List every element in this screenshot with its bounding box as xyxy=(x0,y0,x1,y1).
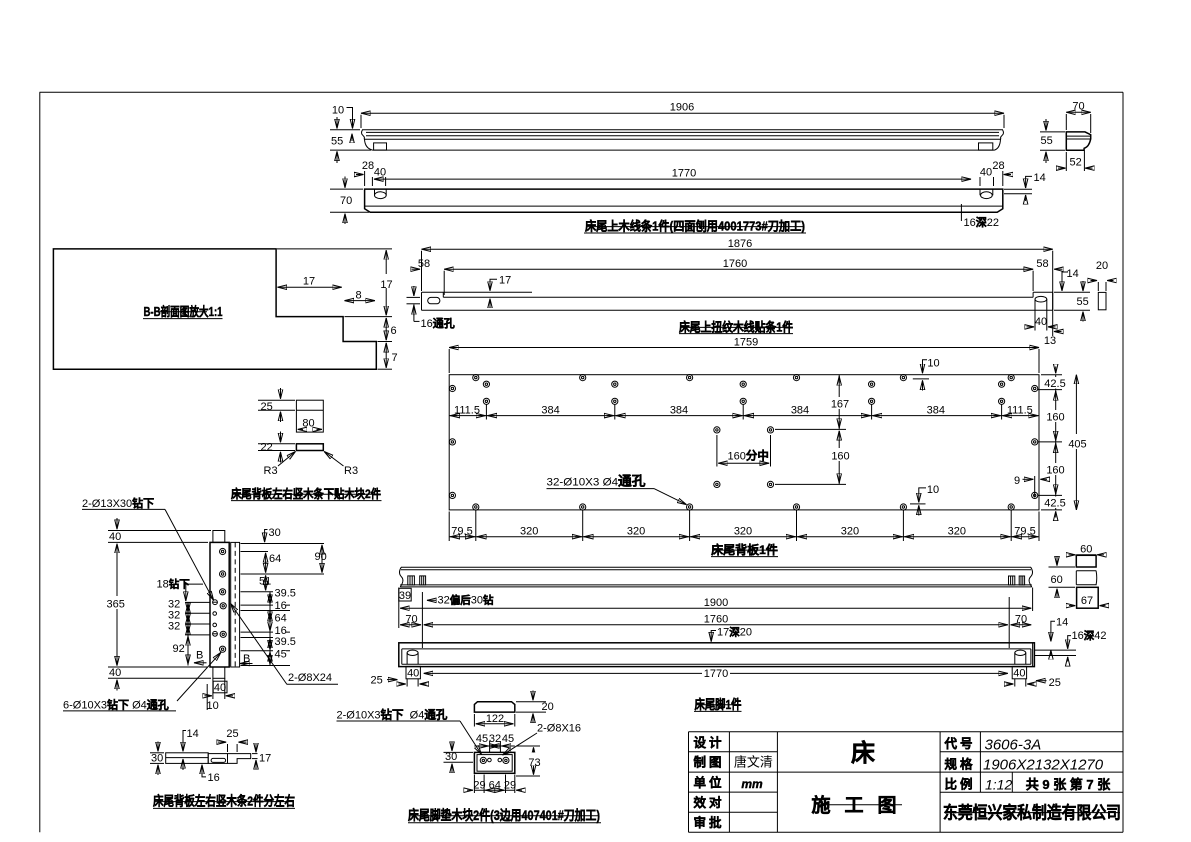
dowel pins right end xyxy=(1009,576,1025,585)
label 6-Ø10X3钻下 Ø4通孔 with leader xyxy=(63,652,221,711)
label 2-Ø10X3钻下 Ø4通孔 pad with leader xyxy=(337,707,482,754)
step reference line 17 xyxy=(443,291,532,293)
label 床尾上木线条1件(四面刨用4001773#刀加工) xyxy=(584,219,806,234)
dowel pins left end xyxy=(408,576,426,585)
svg-text:14: 14 xyxy=(1056,617,1068,629)
svg-text:32偏后30钻: 32偏后30钻 xyxy=(438,593,495,606)
svg-text:3606-3A: 3606-3A xyxy=(985,737,1042,754)
svg-text:R3: R3 xyxy=(264,465,278,477)
label stroke fill simulation xyxy=(155,227,1120,816)
svg-text:160: 160 xyxy=(831,450,849,462)
dim 30 pad xyxy=(444,742,474,774)
dim 60 top profile xyxy=(1069,544,1105,556)
svg-text:67: 67 xyxy=(1081,595,1093,607)
dim 9 right xyxy=(1014,475,1047,498)
notch left on molding xyxy=(374,143,387,150)
dim 405 xyxy=(1066,375,1088,510)
svg-text:17: 17 xyxy=(259,753,271,765)
svg-text:30: 30 xyxy=(445,751,457,763)
svg-text:70: 70 xyxy=(405,614,417,626)
svg-text:B: B xyxy=(196,650,203,662)
dim 40 boxed right leg xyxy=(1006,666,1034,686)
svg-text:25: 25 xyxy=(261,401,273,413)
svg-text:32-Ø10X3 Ø4通孔: 32-Ø10X3 Ø4通孔 xyxy=(547,474,646,489)
svg-text:2-Ø10X3钻下 Ø4通孔: 2-Ø10X3钻下 Ø4通孔 xyxy=(337,707,448,721)
svg-text:40: 40 xyxy=(374,167,386,179)
slot in cross section xyxy=(211,758,226,762)
svg-text:80: 80 xyxy=(302,418,314,430)
label R3 left with leader xyxy=(264,452,296,477)
oval hole left end 16通孔 xyxy=(428,297,440,303)
part 贴木块 lower view outline xyxy=(296,444,323,451)
svg-text:16: 16 xyxy=(275,625,287,637)
svg-text:160: 160 xyxy=(1046,411,1064,423)
part 贴木块 upper view outline xyxy=(296,400,323,432)
svg-text:比例: 比例 xyxy=(944,777,975,792)
slot right leg xyxy=(1015,650,1026,664)
dim 25 right leg xyxy=(1036,677,1061,689)
svg-text:79.5: 79.5 xyxy=(451,526,472,538)
svg-text:384: 384 xyxy=(541,404,559,416)
holes pad block xyxy=(480,757,509,763)
svg-text:8: 8 xyxy=(355,289,361,301)
svg-text:58: 58 xyxy=(418,258,430,270)
dim 40 right slot xyxy=(1027,310,1056,330)
dim 55 right xyxy=(1054,281,1090,322)
svg-text:111.5: 111.5 xyxy=(454,404,480,416)
dim chain right 42.5/160/160/42.5 xyxy=(1038,367,1066,518)
svg-text:92: 92 xyxy=(173,643,185,655)
dim 14 bracket cross section xyxy=(183,728,199,770)
slot left bottom view xyxy=(375,189,387,199)
svg-text:1760: 1760 xyxy=(704,614,728,626)
svg-text:床尾背板1件: 床尾背板1件 xyxy=(711,542,778,557)
dim row 79.5/320 below backboard xyxy=(449,511,1039,542)
svg-text:共 9 张 第 7 张: 共 9 张 第 7 张 xyxy=(1026,777,1112,792)
dim 167 vertical xyxy=(830,375,849,430)
label B-B剖面图放大1:1 xyxy=(143,304,223,319)
holes top row xyxy=(473,375,1015,381)
svg-text:45: 45 xyxy=(275,649,287,661)
holes bottom row xyxy=(473,504,1015,510)
svg-text:28: 28 xyxy=(992,160,1004,172)
svg-text:55: 55 xyxy=(1041,135,1053,147)
svg-text:1759: 1759 xyxy=(734,336,758,348)
svg-text:R3: R3 xyxy=(344,465,358,477)
label 16通孔 leader xyxy=(407,286,455,330)
label 32偏后30钻 with leader xyxy=(427,593,494,606)
svg-text:13: 13 xyxy=(1044,335,1056,347)
svg-text:40: 40 xyxy=(109,667,121,679)
label 床尾背板左右竖木条2件分左右 xyxy=(153,794,295,809)
svg-text:320: 320 xyxy=(948,526,966,538)
label 2-Ø8X16 with leader xyxy=(503,723,582,756)
svg-text:mm: mm xyxy=(741,777,763,791)
svg-text:1760: 1760 xyxy=(723,258,747,270)
svg-text:设计: 设计 xyxy=(693,735,724,750)
svg-text:22: 22 xyxy=(261,441,273,453)
svg-text:30: 30 xyxy=(151,753,163,765)
label 18钻下 with leader xyxy=(157,577,204,601)
dims 32/32/32/92 left of strip xyxy=(168,599,210,666)
label 17深20 bracket xyxy=(711,625,752,641)
dim 1760 leg xyxy=(424,614,1008,626)
part 床尾上木线条 bottom view outline xyxy=(365,189,1003,212)
tenon tab bottom xyxy=(213,667,225,678)
svg-text:6: 6 xyxy=(391,325,397,337)
svg-text:16深42: 16深42 xyxy=(1072,629,1107,642)
svg-text:40: 40 xyxy=(1013,668,1025,680)
svg-text:29: 29 xyxy=(473,780,485,792)
svg-text:1:12: 1:12 xyxy=(985,777,1012,793)
end block section 20x55 xyxy=(1098,292,1106,309)
dim 73 pad xyxy=(516,746,542,776)
svg-text:384: 384 xyxy=(791,404,809,416)
notch right on molding xyxy=(979,143,993,150)
dim 10 bracket bottom xyxy=(910,484,939,516)
dim 6 BB xyxy=(378,318,397,342)
dim 20 end block xyxy=(1091,260,1114,291)
holes in strip xyxy=(213,548,227,652)
svg-text:代号: 代号 xyxy=(943,736,975,751)
svg-text:16: 16 xyxy=(208,772,220,784)
svg-text:64: 64 xyxy=(489,780,501,792)
svg-text:14: 14 xyxy=(1034,172,1046,184)
title block grid xyxy=(689,732,1124,833)
dim 10 bracket xyxy=(332,105,353,142)
slot right bottom view xyxy=(980,189,993,199)
svg-text:40: 40 xyxy=(407,668,419,680)
part B-B section outline xyxy=(53,249,376,369)
svg-text:64: 64 xyxy=(269,553,281,565)
dim 70 left leg xyxy=(400,592,422,648)
svg-text:床尾背板左右竖木条下贴木块2件: 床尾背板左右竖木条下贴木块2件 xyxy=(231,486,381,501)
svg-text:90: 90 xyxy=(315,551,327,563)
dim 1759 xyxy=(449,336,1039,373)
dim 160分中 xyxy=(717,435,771,467)
dim 28 right xyxy=(992,160,1011,186)
svg-text:2-Ø8X24: 2-Ø8X24 xyxy=(288,672,332,684)
svg-text:7: 7 xyxy=(392,352,398,364)
svg-text:9: 9 xyxy=(1014,475,1020,487)
svg-text:10: 10 xyxy=(207,700,219,712)
svg-text:70: 70 xyxy=(1072,101,1084,113)
svg-text:10: 10 xyxy=(332,105,344,117)
svg-text:16深22: 16深22 xyxy=(964,215,1000,229)
holes row 2 xyxy=(483,381,1004,387)
label 床尾上扭纹木线贴条1件 xyxy=(679,319,793,334)
svg-text:70: 70 xyxy=(1015,614,1027,626)
svg-text:17: 17 xyxy=(499,275,511,287)
dim 70 right leg xyxy=(1009,597,1031,648)
svg-text:制图: 制图 xyxy=(693,755,724,770)
dim 60 left profile xyxy=(1049,557,1076,599)
svg-text:39: 39 xyxy=(399,590,411,602)
svg-text:1906X2132X1270: 1906X2132X1270 xyxy=(983,757,1104,774)
svg-text:365: 365 xyxy=(107,599,125,611)
dim 1876 xyxy=(422,238,1053,336)
svg-text:52: 52 xyxy=(1070,157,1082,169)
label 床尾脚垫木块2件(3边用407401#刀加工) xyxy=(408,807,601,823)
dim 25 cross section xyxy=(218,728,247,752)
svg-text:122: 122 xyxy=(486,713,504,725)
dim 67 profile xyxy=(1069,594,1106,608)
label 32-Ø10X3 Ø4通孔 with leader xyxy=(547,474,687,505)
dim row 111.5/384 inside backboard xyxy=(449,404,1039,420)
dim 14 bracket right xyxy=(1062,268,1079,291)
dim 14 right bracket xyxy=(1004,172,1046,201)
svg-text:14: 14 xyxy=(187,728,199,740)
dim 25 left leg xyxy=(371,675,398,687)
svg-text:床尾上木线条1件(四面刨用4001773#刀加工): 床尾上木线条1件(四面刨用4001773#刀加工) xyxy=(585,219,805,234)
svg-text:70: 70 xyxy=(340,195,352,207)
dim 39 boxed xyxy=(399,588,411,602)
dim 20 pad xyxy=(516,691,554,723)
dim 55 profile xyxy=(1040,119,1065,163)
label 床尾背板左右竖木条下贴木块2件 xyxy=(231,486,382,501)
slot right end trim strip xyxy=(1035,296,1047,310)
svg-text:28: 28 xyxy=(362,160,374,172)
dim 7 BB xyxy=(378,343,398,369)
dim 70 profile xyxy=(1066,101,1090,133)
svg-text:40: 40 xyxy=(1035,316,1047,328)
dim 16 bracket cross section xyxy=(202,765,220,784)
svg-text:40: 40 xyxy=(109,531,121,543)
svg-text:20: 20 xyxy=(1096,260,1108,272)
tenon tab top xyxy=(213,531,225,543)
dim 1770 leg xyxy=(424,668,1008,681)
dim 17 vertical BB xyxy=(277,249,394,317)
svg-text:60: 60 xyxy=(1080,544,1092,556)
svg-text:25: 25 xyxy=(1049,677,1061,689)
tongue line bottom view xyxy=(365,205,1003,207)
svg-text:1770: 1770 xyxy=(672,167,696,179)
holes right edge column xyxy=(1032,385,1038,498)
svg-text:320: 320 xyxy=(520,526,538,538)
dim 1760 trim strip xyxy=(444,258,1033,295)
svg-text:55: 55 xyxy=(331,136,343,148)
svg-text:14: 14 xyxy=(1067,268,1079,280)
svg-text:16通孔: 16通孔 xyxy=(421,317,455,330)
svg-text:唐文清: 唐文清 xyxy=(734,755,773,770)
svg-text:160: 160 xyxy=(1046,464,1064,476)
dim 40 boxed left leg xyxy=(399,666,427,686)
svg-text:17: 17 xyxy=(303,276,315,288)
dim chain right of strip 30/64/90/51/39.5/16/64/16/39.5/45 xyxy=(241,527,327,666)
svg-text:25: 25 xyxy=(371,675,383,687)
dim 80 xyxy=(298,418,322,430)
dim 25 xyxy=(258,388,295,422)
end profile section of molding xyxy=(1066,132,1090,150)
svg-text:20: 20 xyxy=(542,701,554,713)
part 竖木条 cross section outline xyxy=(166,753,251,764)
svg-text:405: 405 xyxy=(1068,438,1086,450)
label 2-Ø8X24 with leader xyxy=(231,604,339,685)
dim 1900 xyxy=(399,588,1033,629)
svg-text:111.5: 111.5 xyxy=(1007,404,1033,416)
svg-text:17深20: 17深20 xyxy=(717,625,752,638)
svg-text:320: 320 xyxy=(841,526,859,538)
svg-text:床尾脚垫木块2件(3边用407401#刀加工): 床尾脚垫木块2件(3边用407401#刀加工) xyxy=(408,807,600,823)
section marker B left xyxy=(194,650,207,663)
dim 28 left xyxy=(356,160,374,186)
svg-text:160分中: 160分中 xyxy=(728,448,769,462)
svg-text:1770: 1770 xyxy=(704,668,728,680)
dim 55 molding height xyxy=(330,117,371,163)
svg-text:效对: 效对 xyxy=(693,795,724,810)
svg-text:10: 10 xyxy=(927,357,939,369)
svg-text:2-Ø8X16: 2-Ø8X16 xyxy=(537,723,581,735)
part 脚垫木块 front view outline xyxy=(474,752,514,773)
svg-text:1900: 1900 xyxy=(704,597,728,609)
dim 160 vertical xyxy=(775,429,850,484)
label 16深42 bracket xyxy=(1034,629,1106,662)
svg-text:床尾上扭纹木线贴条1件: 床尾上扭纹木线贴条1件 xyxy=(679,319,793,334)
holes row 3 xyxy=(483,398,1004,404)
dim 17 bracket tongue xyxy=(490,275,511,308)
leg end profile section xyxy=(1076,555,1098,608)
dim 70 left xyxy=(330,177,369,225)
svg-text:45: 45 xyxy=(476,733,488,745)
svg-text:39.5: 39.5 xyxy=(275,636,296,648)
dim 10 bottom xyxy=(207,684,219,712)
slot left leg xyxy=(407,650,418,664)
svg-text:64: 64 xyxy=(275,613,287,625)
svg-text:40: 40 xyxy=(214,682,226,694)
dim 40 left xyxy=(374,167,386,187)
svg-text:1876: 1876 xyxy=(728,238,752,250)
svg-text:42.5: 42.5 xyxy=(1044,498,1065,510)
dim 45/32/45 pad xyxy=(474,733,514,752)
part 脚垫木块 side view outline xyxy=(474,702,514,712)
drawing frame border top xyxy=(40,91,1124,93)
part 床尾脚 bottom view outline xyxy=(399,643,1035,667)
dim chain left 40/365/40 xyxy=(105,518,211,691)
svg-text:58: 58 xyxy=(1036,258,1048,270)
svg-text:25: 25 xyxy=(226,728,238,740)
holes left edge column xyxy=(449,385,455,498)
dim 1770 xyxy=(374,167,971,179)
svg-text:320: 320 xyxy=(734,526,752,538)
section marker B right xyxy=(240,653,253,665)
svg-text:17: 17 xyxy=(380,279,392,291)
svg-text:30: 30 xyxy=(269,527,281,539)
svg-text:29: 29 xyxy=(504,780,516,792)
part 竖木条 front view outline xyxy=(210,542,229,667)
holes center group xyxy=(714,427,774,488)
svg-text:16: 16 xyxy=(275,600,287,612)
dim 1906 xyxy=(361,102,1004,128)
svg-text:1906: 1906 xyxy=(670,102,694,114)
drawing frame border left xyxy=(39,92,41,832)
dim 52 profile xyxy=(1058,151,1093,172)
dim 29/64/29 pad xyxy=(467,775,522,794)
svg-text:2-Ø13X30钻下: 2-Ø13X30钻下 xyxy=(82,496,154,510)
part 床尾上扭纹木线贴条 outline xyxy=(422,292,1053,310)
svg-text:79.5: 79.5 xyxy=(1014,526,1035,538)
svg-text:55: 55 xyxy=(1077,296,1089,308)
svg-text:60: 60 xyxy=(1051,574,1063,586)
label 16深22 xyxy=(961,204,999,229)
svg-text:32: 32 xyxy=(168,621,180,633)
label 床尾脚1件 xyxy=(694,697,742,712)
label 2-Ø13X30钻下 with leader xyxy=(82,496,214,601)
svg-text:73: 73 xyxy=(528,757,540,769)
svg-text:51: 51 xyxy=(259,575,271,587)
svg-text:32: 32 xyxy=(489,733,501,745)
svg-text:10: 10 xyxy=(927,484,939,496)
dim 40 bottom tab xyxy=(205,678,234,699)
svg-text:320: 320 xyxy=(627,526,645,538)
svg-text:384: 384 xyxy=(927,404,945,416)
svg-text:42.5: 42.5 xyxy=(1044,378,1065,390)
svg-text:45: 45 xyxy=(502,733,514,745)
part 床尾脚 top view outline xyxy=(399,567,1032,587)
dim 17 cross section xyxy=(252,744,271,770)
svg-text:167: 167 xyxy=(831,399,849,411)
side view strip xyxy=(231,542,240,667)
dim 14 bracket right leg xyxy=(1051,617,1068,656)
dim 30 cross section xyxy=(150,742,164,776)
svg-text:审批: 审批 xyxy=(693,815,724,830)
svg-text:单位: 单位 xyxy=(693,775,724,790)
drawing frame border right xyxy=(1122,92,1124,832)
part 床尾背板 outline xyxy=(449,375,1039,510)
dim 17 horizontal BB xyxy=(278,276,342,288)
label R3 right with leader xyxy=(324,452,358,477)
label 床尾背板1件 xyxy=(711,542,778,557)
dim 10 bracket top xyxy=(913,357,940,390)
dim 13 xyxy=(1044,332,1062,348)
dim 122 pad xyxy=(474,713,514,727)
dim 8 BB xyxy=(345,289,375,301)
dim 58 right xyxy=(1036,258,1062,270)
svg-text:384: 384 xyxy=(670,404,688,416)
dim 22 xyxy=(258,432,295,463)
svg-text:规格: 规格 xyxy=(944,757,975,772)
svg-text:40: 40 xyxy=(980,167,992,179)
dim 40 right xyxy=(980,167,992,187)
svg-text:39.5: 39.5 xyxy=(275,588,296,600)
dim 58 left xyxy=(412,258,431,270)
part 床尾上木线条 front view outline xyxy=(362,130,1004,150)
svg-text:6-Ø10X3钻下 Ø4通孔: 6-Ø10X3钻下 Ø4通孔 xyxy=(63,697,169,711)
